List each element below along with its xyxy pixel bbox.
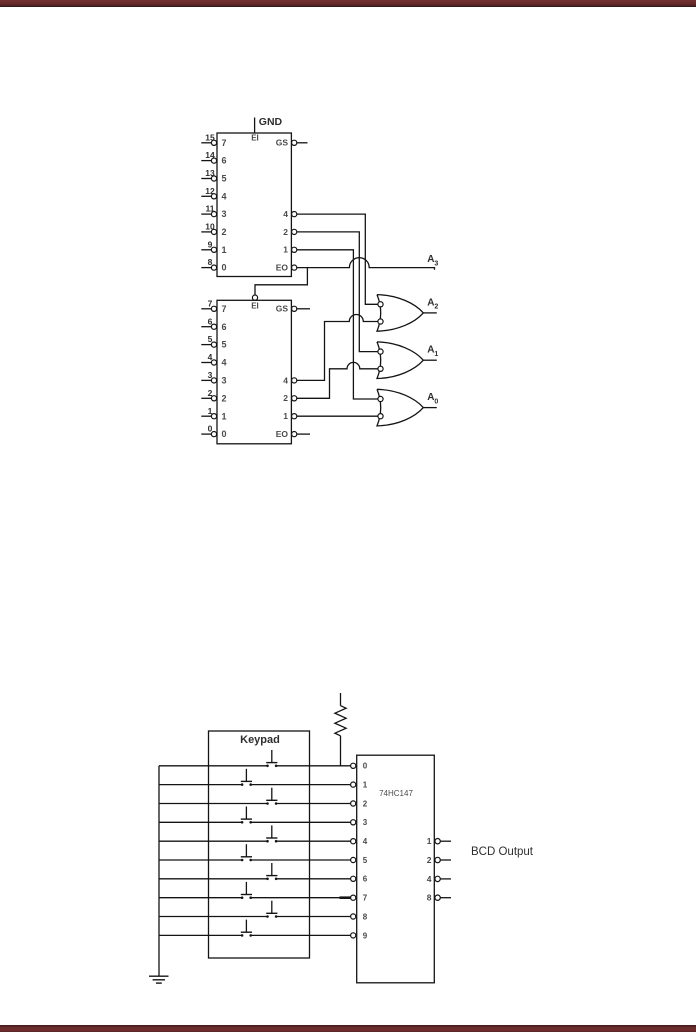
pushbutton switch for key 7 xyxy=(241,882,252,899)
U1 input 2 (pin 10) stub, bubble, labels xyxy=(201,222,226,238)
svg-text:2: 2 xyxy=(283,393,288,403)
svg-text:2: 2 xyxy=(222,227,227,237)
row 0 wire from bus to 74HC147 input 0 xyxy=(159,765,351,767)
U3 input bubble and label 7 xyxy=(351,894,368,903)
U1 output 2 xyxy=(283,227,297,237)
svg-text:0: 0 xyxy=(208,424,213,434)
svg-text:EI: EI xyxy=(251,134,259,143)
U2 input 6 (pin 6) stub, bubble, labels xyxy=(201,316,226,332)
wire U1 pin1 output to G0 top input xyxy=(297,250,378,399)
svg-text:0: 0 xyxy=(222,263,227,273)
svg-text:1: 1 xyxy=(283,411,288,421)
svg-text:15: 15 xyxy=(205,132,215,142)
row 1 wire from bus to 74HC147 input 1 xyxy=(159,784,351,786)
svg-text:1: 1 xyxy=(283,245,288,255)
svg-text:8: 8 xyxy=(208,257,213,267)
U1 input 4 (pin 12) stub, bubble, labels xyxy=(201,186,226,202)
svg-text:4: 4 xyxy=(222,358,227,368)
svg-text:Keypad: Keypad xyxy=(240,734,280,746)
U1 output GS with stub xyxy=(276,138,308,148)
svg-text:4: 4 xyxy=(363,837,368,846)
U2 output 4 xyxy=(283,375,297,385)
wire U2 pin1 output to G0 bottom input xyxy=(297,415,378,417)
svg-text:GND: GND xyxy=(259,116,283,128)
pushbutton switch for key 1 xyxy=(241,769,252,786)
U3 BCD output 8 bubble and stub xyxy=(427,893,451,903)
svg-text:6: 6 xyxy=(363,875,368,884)
svg-text:4: 4 xyxy=(222,191,227,201)
pushbutton switch for key 5 xyxy=(241,844,252,861)
wire U2 pin4 output to G2 bottom input with hop xyxy=(297,315,378,381)
svg-text:5: 5 xyxy=(222,340,227,350)
svg-text:7: 7 xyxy=(363,894,368,903)
svg-text:6: 6 xyxy=(222,322,227,332)
svg-text:13: 13 xyxy=(205,168,215,178)
svg-text:8: 8 xyxy=(427,893,432,903)
U3 BCD output 1 bubble and stub xyxy=(427,836,451,846)
U3 input bubble and label 3 xyxy=(351,818,368,827)
svg-text:9: 9 xyxy=(208,239,213,249)
pull-up resistor R1 xyxy=(335,693,346,766)
svg-text:7: 7 xyxy=(208,298,213,308)
svg-text:5: 5 xyxy=(363,856,368,865)
negative-input OR gate G1 (A1) xyxy=(377,342,437,379)
svg-text:74HC147: 74HC147 xyxy=(379,789,413,798)
U1 input 3 (pin 11) stub, bubble, labels xyxy=(201,204,226,220)
row 4 wire from bus to 74HC147 input 4 xyxy=(159,840,351,842)
U3 input bubble and label 6 xyxy=(351,875,368,884)
svg-text:7: 7 xyxy=(222,138,227,148)
svg-text:12: 12 xyxy=(205,186,215,196)
svg-text:2: 2 xyxy=(208,388,213,398)
pushbutton switch for key 6 xyxy=(266,863,277,880)
svg-text:0: 0 xyxy=(363,762,368,771)
U3 BCD output 4 bubble and stub xyxy=(427,874,451,884)
wire U1 EO branch down to U2 EI xyxy=(255,268,307,295)
U2 EI bubble on top edge xyxy=(252,295,257,300)
U2 input 4 (pin 4) stub, bubble, labels xyxy=(201,352,226,368)
U2 input 2 (pin 2) stub, bubble, labels xyxy=(201,388,226,404)
U1 input 6 (pin 14) stub, bubble, labels xyxy=(201,150,226,166)
row 8 wire from bus to 74HC147 input 8 xyxy=(159,916,351,918)
svg-text:2: 2 xyxy=(283,227,288,237)
svg-text:4: 4 xyxy=(208,352,213,362)
GND label and wire to U1 EI xyxy=(255,116,283,133)
svg-text:A2: A2 xyxy=(427,297,438,310)
svg-text:GS: GS xyxy=(276,138,289,148)
U1 output 4 xyxy=(283,209,297,219)
svg-text:BCD Output: BCD Output xyxy=(471,846,534,858)
U1 input 1 (pin 9) stub, bubble, labels xyxy=(201,239,226,255)
svg-text:3: 3 xyxy=(222,376,227,386)
U2 input 7 (pin 7) stub, bubble, labels xyxy=(201,298,226,314)
U1 input 0 (pin 8) stub, bubble, labels xyxy=(201,257,226,273)
svg-text:A3: A3 xyxy=(427,254,438,267)
svg-text:2: 2 xyxy=(427,855,432,865)
U1 input 7 (pin 15) stub, bubble, labels xyxy=(201,132,226,148)
pushbutton switch for key 3 xyxy=(241,807,252,824)
pushbutton switch for key 0 xyxy=(266,750,277,767)
IC U1 (74HC148) body xyxy=(217,133,291,277)
U3 input bubble and label 9 xyxy=(351,931,368,940)
svg-text:11: 11 xyxy=(206,204,215,214)
U2 output 2 xyxy=(283,393,297,403)
svg-text:9: 9 xyxy=(363,931,368,940)
row 9 wire from bus to 74HC147 input 9 xyxy=(159,934,351,936)
U2 input 0 (pin 0) stub, bubble, labels xyxy=(201,424,226,440)
svg-text:3: 3 xyxy=(363,818,368,827)
U3 input bubble and label 0 xyxy=(351,762,368,771)
negative-input OR gate G2 (A2) xyxy=(377,295,437,332)
U2 input 3 (pin 3) stub, bubble, labels xyxy=(201,370,226,386)
svg-text:14: 14 xyxy=(205,150,215,160)
svg-text:2: 2 xyxy=(363,799,368,808)
pushbutton switch for key 2 xyxy=(266,788,277,805)
U1 output EO xyxy=(276,263,297,273)
svg-text:4: 4 xyxy=(283,209,288,219)
row 5 wire from bus to 74HC147 input 5 xyxy=(159,859,351,861)
U3 input bubble and label 4 xyxy=(351,837,368,846)
U3 BCD output 2 bubble and stub xyxy=(427,855,451,865)
svg-text:4: 4 xyxy=(427,874,432,884)
row 3 wire from bus to 74HC147 input 3 xyxy=(159,821,351,823)
svg-text:A0: A0 xyxy=(427,392,438,405)
IC U3 74HC147 body xyxy=(357,755,435,983)
svg-text:GS: GS xyxy=(276,304,289,314)
bottom maroon border bar xyxy=(0,1025,696,1032)
svg-text:7: 7 xyxy=(222,304,227,314)
U2 output GS with stub xyxy=(276,304,310,314)
svg-text:1: 1 xyxy=(427,836,432,846)
ground bus vertical wire xyxy=(158,766,160,976)
negative-input OR gate G0 (A0) xyxy=(377,389,437,426)
row 7 wire from bus to 74HC147 input 7 xyxy=(159,897,351,899)
svg-text:8: 8 xyxy=(363,912,368,921)
pushbutton switch for key 4 xyxy=(266,825,277,842)
svg-text:A1: A1 xyxy=(427,345,438,358)
wire U1 pin2 output to G1 top input xyxy=(297,232,378,352)
ground symbol xyxy=(149,976,169,983)
U2 output 1 xyxy=(283,411,297,421)
svg-text:3: 3 xyxy=(208,370,213,380)
svg-text:5: 5 xyxy=(208,334,213,344)
wire U2 pin2 output to G1 bottom input with hop xyxy=(297,362,378,398)
svg-text:EI: EI xyxy=(251,301,259,310)
svg-text:0: 0 xyxy=(222,429,227,439)
svg-text:4: 4 xyxy=(283,375,288,385)
U1 input 5 (pin 13) stub, bubble, labels xyxy=(201,168,226,184)
svg-text:10: 10 xyxy=(205,222,215,232)
U1 output 1 xyxy=(283,245,297,255)
U3 input bubble and label 5 xyxy=(351,856,368,865)
svg-text:EO: EO xyxy=(276,429,289,439)
top maroon border bar xyxy=(0,0,696,7)
svg-text:EO: EO xyxy=(276,263,289,273)
svg-text:2: 2 xyxy=(222,393,227,403)
svg-text:1: 1 xyxy=(222,245,227,255)
pushbutton switch for key 9 xyxy=(241,920,252,937)
svg-text:5: 5 xyxy=(222,174,227,184)
wire U1 EO to A3 output with hop over three verticals xyxy=(297,258,435,270)
svg-text:1: 1 xyxy=(363,781,368,790)
svg-text:3: 3 xyxy=(222,209,227,219)
U3 input bubble and label 1 xyxy=(351,781,368,790)
row 6 wire from bus to 74HC147 input 6 xyxy=(159,878,351,880)
U2 input 5 (pin 5) stub, bubble, labels xyxy=(201,334,226,350)
svg-text:1: 1 xyxy=(208,406,213,416)
svg-text:6: 6 xyxy=(208,316,213,326)
U3 input bubble and label 2 xyxy=(351,799,368,808)
U2 output EO with stub xyxy=(276,429,310,439)
row 2 wire from bus to 74HC147 input 2 xyxy=(159,803,351,805)
Keypad box xyxy=(209,731,310,958)
wire U1 pin4 output to G2 top input xyxy=(297,214,378,304)
U3 input bubble and label 8 xyxy=(351,912,368,921)
IC U2 (74HC148) body xyxy=(217,300,291,444)
pushbutton switch for key 8 xyxy=(266,901,277,918)
svg-text:6: 6 xyxy=(222,156,227,166)
svg-text:1: 1 xyxy=(222,411,227,421)
U2 input 1 (pin 1) stub, bubble, labels xyxy=(201,406,226,422)
